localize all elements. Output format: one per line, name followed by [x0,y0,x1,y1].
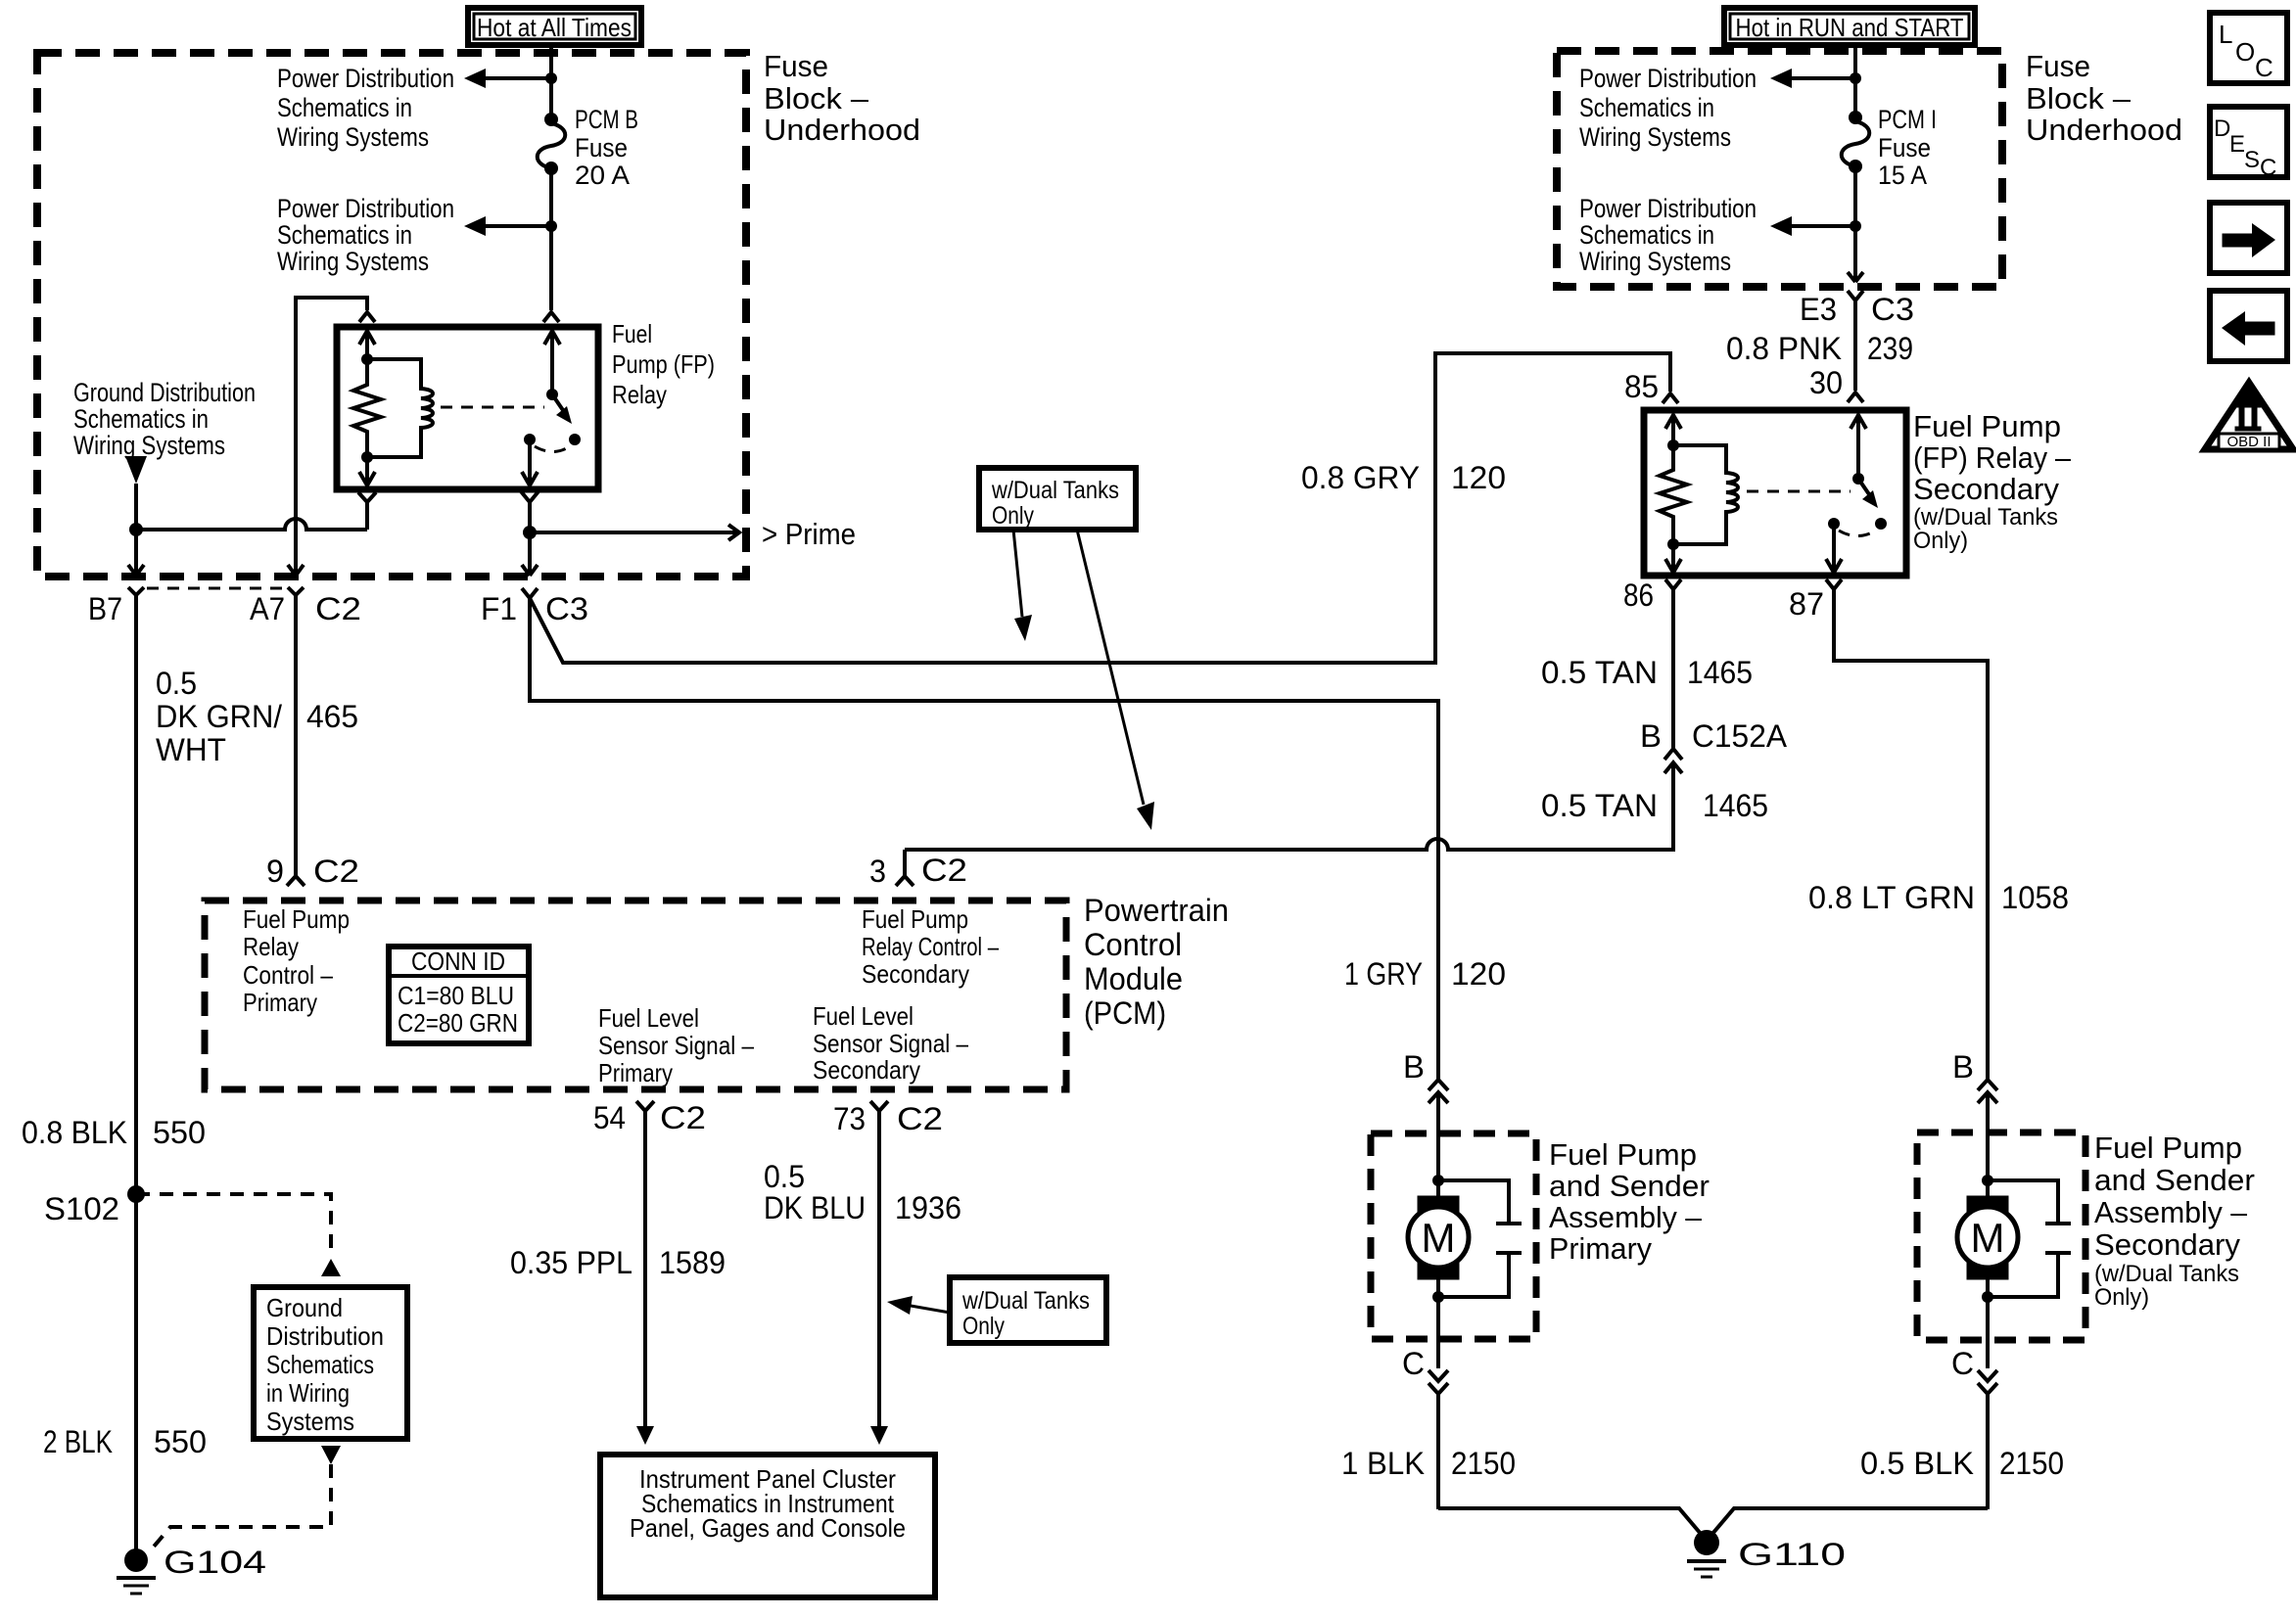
svg-text:Fuel Pump: Fuel Pump [862,904,968,934]
svg-text:Power Distribution: Power Distribution [277,194,454,223]
svg-text:C: C [2260,155,2276,181]
wire: BLK 2150 down to G110 bus secondary [1986,1394,1990,1509]
svg-text:DK GRN/: DK GRN/ [156,699,282,734]
module box: Powertrain Control Module dashed [205,901,1066,1089]
svg-text:0.5: 0.5 [156,666,197,701]
icon: LOC box [2210,13,2287,83]
wire: A7 edge arrow [288,565,304,576]
wire: B7 ground wire down to S102 [134,595,138,1194]
label: Fuel Level Sensor Signal - Secondary [813,1001,968,1085]
relay box: Fuel Pump (FP) Relay - Secondary [1644,410,1906,576]
connector chevron into PCM pin 9 [287,876,305,886]
svg-text:C2: C2 [315,591,361,626]
coil: secondary relay coil [1673,445,1738,544]
wire: arrow at right fuse block edge [1848,272,1863,282]
svg-text:Underhood: Underhood [764,113,920,147]
svg-text:Relay: Relay [612,380,667,409]
wire: prime arrow [530,525,739,540]
svg-text:54: 54 [593,1100,626,1135]
svg-text:Schematics in: Schematics in [1579,93,1714,122]
svg-text:Wiring Systems: Wiring Systems [73,431,225,460]
node: splice S102 [127,1185,145,1203]
svg-text:Ground Distribution: Ground Distribution [73,378,256,407]
wire: battery feed down from Hot at All Times [549,45,553,115]
svg-text:550: 550 [154,1424,207,1459]
wire: A7 riser up and over to relay pin 85 [296,298,367,575]
svg-text:E: E [2229,131,2245,158]
svg-text:Only): Only) [1913,528,1968,554]
wire: BLK 2150 down to G110 bus primary [1436,1394,1440,1509]
svg-text:PCM I: PCM I [1878,105,1937,134]
svg-text:Control –: Control – [243,960,333,990]
label: Fuel Pump Relay Control - Primary [243,904,350,1017]
svg-text:Fuse: Fuse [575,133,628,162]
icon: forward arrow box [2210,203,2287,273]
connector Y: B7 [128,587,144,595]
connector Y: PCM pin 73 [870,1101,888,1111]
label: Power Distribution Schematics in Wiring Systems (upper right) [1579,64,1757,152]
switch: secondary relay contact arm [1828,473,1887,536]
wire: pin 86 down to C152A [1671,589,1675,748]
node: motor bottom junction primary [1432,1291,1444,1303]
svg-text:Pump (FP): Pump (FP) [612,349,715,379]
svg-text:Sensor Signal –: Sensor Signal – [598,1031,754,1060]
wire: ground bus to G110 [1438,1508,1988,1541]
svg-text:Only: Only [992,502,1034,530]
svg-text:Underhood: Underhood [2026,113,2182,147]
ground: G104 [117,1548,156,1594]
svg-text:Schematics in: Schematics in [1579,220,1714,250]
wire: PPL 1589 down to instrument cluster with arrow [636,1111,654,1445]
svg-text:87: 87 [1789,586,1824,622]
label: Powertrain Control Module (PCM) [1084,893,1229,1031]
label box: Hot at All Times (double border) [468,8,641,45]
svg-text:85: 85 [1624,369,1659,404]
svg-text:239: 239 [1867,331,1913,366]
wire: S102 down to G104 [134,1194,138,1558]
label: Fuel Pump (FP) Relay - Secondary (w/Dual Tanks Only) [1913,409,2072,554]
wire: ignition feed down from Hot in RUN and START [1853,45,1857,114]
motor: fuel pump motor M secondary [1957,1196,2018,1279]
conn id table box [389,947,529,1043]
svg-text:Assembly –: Assembly – [1549,1200,1703,1234]
svg-text:Schematics: Schematics [266,1350,374,1379]
relay internal: coil return with down arrow to pin 86 secondary [1665,538,1681,574]
fuse: PCM B Fuse 20 A [538,113,566,175]
dashed box: Fuse Block - Underhood (right) [1557,51,2002,287]
dashed actuation link primary [441,406,544,409]
arrow up into ground distribution box [321,1259,341,1276]
svg-text:0.5: 0.5 [764,1159,805,1194]
svg-text:2150: 2150 [1451,1446,1516,1481]
svg-text:1465: 1465 [1687,655,1753,690]
node: junction dot at power tap 1 [545,72,557,84]
svg-text:L: L [2219,20,2232,49]
svg-text:73: 73 [833,1101,866,1136]
svg-text:C: C [2255,53,2273,82]
svg-text:0.8 BLK: 0.8 BLK [22,1115,127,1150]
ground: G110 [1687,1530,1726,1577]
svg-text:Primary: Primary [598,1058,673,1087]
svg-text:C: C [1402,1346,1425,1381]
svg-text:Primary: Primary [243,988,317,1017]
capacitor: suppression capacitor secondary pump [1988,1180,2071,1297]
label: Fuse Block - Underhood (left) [764,49,920,147]
label: Fuel Pump and Sender Assembly - Secondary (w/Dual Tanks Only) [2094,1131,2255,1311]
wire: arrow to power distribution upper right [1770,69,1855,88]
svg-text:G104: G104 [164,1545,266,1580]
svg-text:A7: A7 [250,591,285,626]
svg-text:Control: Control [1084,927,1182,962]
svg-text:Wiring Systems: Wiring Systems [277,247,429,276]
svg-text:1465: 1465 [1703,788,1768,823]
svg-text:Powertrain: Powertrain [1084,893,1229,928]
relay internal: pin 30 lead with up arrow secondary [1851,414,1866,479]
svg-text:0.5 BLK: 0.5 BLK [1860,1446,1974,1481]
coil: primary relay coil [367,359,433,457]
wire: PCM pin 3 control to C152A (hop over 1 GRY) [905,762,1673,876]
svg-text:B7: B7 [88,591,122,626]
dashed box: Fuse Block - Underhood (left) [37,53,746,577]
box: Ground Distribution Schematics in Wiring Systems [254,1287,407,1439]
connector chevron: secondary relay pin 30 [1848,393,1863,402]
connector Y below secondary relay pin 86 [1665,579,1681,589]
connector Y below primary relay pin 86 [358,492,376,530]
svg-text:DK BLU: DK BLU [764,1190,866,1225]
svg-text:1589: 1589 [659,1245,726,1280]
resistor: primary relay suppression resistor [353,359,381,457]
svg-text:C: C [1951,1346,1974,1381]
wire: feed into primary pump [1436,1092,1440,1198]
svg-text:9: 9 [266,854,284,889]
callout box: w/Dual Tanks Only upper [979,468,1136,530]
label: Fuel Pump (FP) Relay [612,319,715,409]
svg-text:465: 465 [306,699,358,734]
connector Y below secondary relay pin 87 [1826,579,1842,589]
svg-text:1 BLK: 1 BLK [1341,1446,1425,1481]
svg-text:in Wiring: in Wiring [266,1378,350,1408]
svg-text:Block –: Block – [2026,81,2132,115]
svg-text:> Prime: > Prime [762,517,856,551]
svg-text:Fuse: Fuse [2026,49,2090,83]
svg-text:B: B [1403,1049,1425,1085]
connector Y: PCM pin 54 [636,1101,654,1111]
box: Instrument Panel Cluster Schematics [600,1455,935,1597]
relay internal: pin 30 lead with up arrow [544,330,560,394]
icon: OBD II triangle [2205,383,2293,450]
svg-text:D: D [2214,115,2230,142]
connector Y: A7 [288,587,304,595]
svg-text:Panel, Gages and Console: Panel, Gages and Console [630,1513,906,1543]
svg-text:O: O [2235,37,2255,67]
fuse: PCM I Fuse 15 A [1842,111,1870,173]
label box: Hot in RUN and START (double border) [1724,8,1975,45]
svg-text:C1=80 BLU: C1=80 BLU [398,981,514,1010]
node: motor bottom junction secondary [1982,1291,1993,1303]
svg-text:OBD II: OBD II [2226,434,2271,450]
svg-text:550: 550 [153,1115,206,1150]
svg-text:C2: C2 [897,1101,943,1136]
svg-text:C2: C2 [921,853,967,888]
svg-text:120: 120 [1451,956,1506,992]
svg-text:C2=80 GRN: C2=80 GRN [398,1008,518,1038]
connector: inline double chevron C primary pump [1429,1370,1448,1394]
svg-text:Wiring Systems: Wiring Systems [1579,247,1731,276]
svg-text:Secondary: Secondary [1913,472,2059,506]
wire: A7 down to PCM pin 9 [294,595,298,876]
svg-text:C3: C3 [545,591,588,626]
svg-text:Block –: Block – [764,81,869,115]
svg-text:WHT: WHT [156,732,226,767]
svg-text:Secondary: Secondary [813,1055,920,1085]
wire: F1 to secondary relay pin 85 (0.8 GRY 120) [530,353,1670,663]
connector body dashed line B7-A7 [147,587,286,590]
svg-text:w/Dual Tanks: w/Dual Tanks [961,1287,1090,1315]
wire: fuse output down to relay pin 30 [549,172,553,310]
svg-text:Power Distribution: Power Distribution [1579,194,1757,223]
svg-text:Hot in RUN and START: Hot in RUN and START [1736,13,1964,42]
wire: dashed branch S102 to ground distribution box [136,1194,331,1257]
wire: fuse output down to fuse block edge [1853,170,1857,281]
svg-text:Power Distribution: Power Distribution [277,64,454,93]
svg-text:F1: F1 [481,591,517,626]
svg-text:C152A: C152A [1692,718,1788,754]
label: Fuse Block - Underhood (right) [2026,49,2182,147]
svg-text:(w/Dual Tanks: (w/Dual Tanks [2094,1261,2239,1287]
wire: motor return down out of box secondary [1986,1279,1990,1368]
svg-text:PCM B: PCM B [575,105,638,134]
svg-text:20 A: 20 A [575,161,630,190]
label: 0.5 DK GRN/ WHT [156,666,282,767]
wire: arrow to power distribution upper left [464,69,551,88]
svg-text:Relay: Relay [243,932,299,961]
connector Y: E3/C3 [1848,291,1863,300]
svg-text:Only: Only [962,1313,1005,1340]
relay internal: coil return with down arrow to pin 86 [359,451,375,486]
relay internal: switch output with down arrow to pin 87 [522,439,538,486]
svg-text:and Sender: and Sender [2094,1163,2255,1197]
svg-text:CONN ID: CONN ID [411,947,505,976]
wire: down to B7 with edge arrow [128,530,144,576]
svg-text:Wiring Systems: Wiring Systems [277,122,429,152]
svg-text:Schematics in: Schematics in [277,220,412,250]
label: 0.5 DK BLU [764,1159,866,1225]
callout box: w/Dual Tanks Only lower [950,1277,1106,1343]
label: Fuel Level Sensor Signal - Primary [598,1003,754,1087]
node: junction dot right tap 1 [1850,72,1861,84]
label: PCM I Fuse 15 A [1878,105,1937,190]
svg-text:120: 120 [1451,460,1506,495]
svg-text:Hot at All Times: Hot at All Times [477,13,632,42]
dashed actuation link secondary [1747,490,1851,493]
motor: fuel pump motor M primary [1408,1196,1469,1279]
svg-text:Assembly –: Assembly – [2094,1195,2248,1229]
svg-text:2150: 2150 [1999,1446,2064,1481]
svg-text:Fuel Pump: Fuel Pump [2094,1131,2242,1165]
svg-text:15 A: 15 A [1878,161,1927,190]
svg-text:Fuel Pump: Fuel Pump [1549,1137,1697,1172]
svg-text:w/Dual Tanks: w/Dual Tanks [991,477,1119,504]
wire: triangle down to ground node [134,484,138,530]
connector: inline double chevron B primary pump [1429,1080,1448,1103]
label: Power Distribution Schematics in Wiring Systems (lower right) [1579,194,1757,276]
relay internal: pin 85 lead with up arrow [359,330,375,365]
node: junction dot ground/pin86 [129,523,143,536]
svg-text:M: M [1422,1215,1456,1261]
svg-text:(FP) Relay –: (FP) Relay – [1913,440,2072,475]
capacitor: suppression capacitor primary pump [1438,1180,1522,1297]
svg-text:0.5 TAN: 0.5 TAN [1541,788,1658,823]
svg-text:B: B [1952,1049,1974,1085]
svg-text:86: 86 [1623,577,1654,613]
connector chevron into PCM pin 3 [896,876,914,886]
svg-text:Wiring Systems: Wiring Systems [1579,122,1731,152]
icon: DESC box [2210,107,2287,181]
svg-text:(PCM): (PCM) [1084,995,1166,1031]
svg-text:Ground: Ground [266,1293,343,1322]
connector: inline double chevron C secondary pump [1978,1370,1997,1394]
svg-text:Fuel Pump: Fuel Pump [1913,409,2061,443]
svg-text:S102: S102 [44,1191,119,1226]
svg-text:Sensor Signal –: Sensor Signal – [813,1029,968,1058]
label: Power Distribution Schematics in Wiring Systems (lower left) [277,194,454,276]
wire: pin 87 to fuel pump secondary (0.8 LT GRN 1058) [1834,589,1988,1080]
svg-text:C3: C3 [1871,292,1914,327]
node: motor top junction primary [1432,1175,1444,1186]
connector Y below primary relay pin 87 [521,491,539,532]
svg-text:0.8 GRY: 0.8 GRY [1301,460,1420,495]
label: Fuel Pump and Sender Assembly - Primary [1549,1137,1710,1266]
svg-text:C2: C2 [313,854,359,889]
svg-text:1058: 1058 [2001,880,2069,915]
relay internal: pin 85 lead with up arrow secondary [1665,414,1681,451]
assembly box: Fuel Pump and Sender Assembly secondary dashed [1917,1132,2085,1340]
svg-text:Relay Control –: Relay Control – [862,932,999,961]
svg-text:Schematics in: Schematics in [277,93,412,122]
svg-text:0.35 PPL: 0.35 PPL [510,1245,633,1280]
relay internal: switch output with down arrow to pin 87 secondary [1826,524,1842,574]
svg-text:1936: 1936 [895,1190,961,1225]
wire: DK BLU 1936 down to instrument cluster with arrow [870,1111,888,1445]
relay box: Fuel Pump (FP) Relay primary [337,327,598,489]
svg-text:Fuse: Fuse [764,49,828,83]
svg-text:30: 30 [1809,365,1843,400]
arrow from w/Dual Tanks Only lower to 1936 wire [887,1296,950,1315]
svg-text:Distribution: Distribution [266,1321,384,1351]
svg-text:Module: Module [1084,961,1183,996]
svg-text:Primary: Primary [1549,1231,1652,1266]
svg-text:Fuel: Fuel [612,319,652,348]
node: motor top junction secondary [1982,1175,1993,1186]
arrow from w/Dual Tanks Only to 0.8 GRY wire [1013,530,1032,641]
connector chevron: primary relay pin 85 [359,312,375,322]
svg-text:C2: C2 [660,1100,706,1135]
wire: 0.8 PNK 239 down to relay pin 30 [1853,300,1857,391]
svg-text:G110: G110 [1738,1537,1846,1572]
connector chevron: primary relay pin 30 [543,312,559,322]
connector Y: F1 [522,588,538,598]
svg-text:Fuel Pump: Fuel Pump [243,904,350,934]
node: junction dot at power tap 2 [545,220,557,232]
svg-text:Only): Only) [2094,1284,2149,1311]
connector: C152A inline double chevron [1664,749,1682,773]
assembly box: Fuel Pump and Sender Assembly primary dashed [1371,1133,1536,1339]
label: Fuel Pump Relay Control - Secondary [862,904,999,989]
svg-text:Secondary: Secondary [862,959,969,989]
wire: feed into secondary pump [1986,1092,1990,1198]
label: Ground Distribution Schematics in Wiring Systems (left) [73,378,256,460]
svg-text:Power Distribution: Power Distribution [1579,64,1757,93]
svg-text:0.8 PNK: 0.8 PNK [1726,331,1842,366]
arrow down out of ground distribution box [321,1446,341,1464]
arrow from w/Dual Tanks Only to 0.5 TAN wire [1077,530,1154,830]
switch: primary relay contact arm [524,389,581,452]
svg-text:(w/Dual Tanks: (w/Dual Tanks [1913,504,2058,531]
node: pin 87 prime tap [523,526,537,539]
wire: pin 86 return to ground node (hop over A7) [136,519,367,530]
svg-text:2 BLK: 2 BLK [43,1424,113,1459]
wire: pin 87 down to F1 with edge arrow [522,532,538,576]
node: junction dot right tap 2 [1850,220,1861,232]
svg-text:3: 3 [869,854,886,889]
svg-text:Fuel Level: Fuel Level [598,1003,699,1033]
label: PCM B Fuse 20 A [575,105,638,190]
svg-text:Fuse: Fuse [1878,133,1931,162]
wire: arrow to power distribution lower left [464,216,551,236]
svg-text:0.5 TAN: 0.5 TAN [1541,655,1658,690]
wire: dashed from ground box to G104 [149,1464,331,1552]
svg-text:M: M [1971,1215,2005,1261]
svg-text:and Sender: and Sender [1549,1169,1710,1203]
wire: F1 to fuel pump primary (1 GRY 120) [530,598,1438,1080]
label: Power Distribution Schematics in Wiring Systems (upper left) [277,64,454,152]
svg-text:1 GRY: 1 GRY [1344,956,1423,992]
svg-text:S: S [2244,147,2260,173]
icon: back arrow box [2210,291,2287,361]
resistor: secondary relay suppression resistor [1660,445,1687,544]
svg-text:Fuel Level: Fuel Level [813,1001,914,1031]
svg-text:Systems: Systems [266,1407,354,1436]
wire: motor return down out of box primary [1436,1279,1440,1368]
connector chevron: secondary relay pin 85 [1663,393,1678,403]
svg-text:B: B [1640,718,1662,754]
wire: arrow to power distribution lower right [1770,216,1855,236]
ground feed triangle [125,456,147,484]
svg-text:Secondary: Secondary [2094,1227,2240,1262]
svg-text:0.8 LT GRN: 0.8 LT GRN [1808,880,1975,915]
svg-text:Schematics in: Schematics in [73,404,209,434]
svg-text:E3: E3 [1800,292,1837,327]
connector: inline double chevron B secondary pump [1978,1080,1997,1103]
